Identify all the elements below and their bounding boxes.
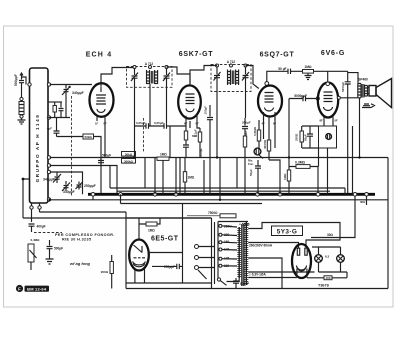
- svg-text:200Ω: 200Ω: [101, 270, 109, 274]
- svg-text:0,4MΩ: 0,4MΩ: [31, 238, 41, 242]
- svg-text:7500Ω: 7500Ω: [208, 211, 218, 215]
- svg-text:8F: 8F: [320, 119, 324, 123]
- svg-text:260/260V 60mA: 260/260V 60mA: [249, 244, 273, 248]
- svg-text:1MΩ: 1MΩ: [188, 176, 195, 180]
- svg-text:500µµF: 500µµF: [14, 74, 18, 86]
- wire drop x163: [162, 160, 164, 194]
- resistor 100 box: [324, 272, 347, 280]
- resistor 30 ohm (hum): [312, 233, 347, 272]
- bottom chassis line: [126, 288, 388, 290]
- trimmer 250uuF: [76, 182, 96, 190]
- 6SK7 cathode network: [135, 121, 202, 194]
- main chassis bus: [88, 193, 375, 196]
- resistor 250k: [243, 131, 248, 195]
- tuning gang dashed link: [71, 96, 73, 196]
- wire T1 coil bottom: [149, 84, 151, 126]
- wire T2 coil bottom: [245, 88, 247, 118]
- coupling capacitor 50uuF: [267, 67, 302, 81]
- wire 1M resistor leads: [184, 158, 186, 195]
- 6E5 section box top: [126, 217, 212, 219]
- capacitor 4uF: [47, 127, 83, 137]
- svg-text:GRUPPO AP H 1149: GRUPPO AP H 1149: [35, 114, 40, 183]
- pilot lamp 1: [315, 247, 323, 272]
- transformer primary bottom lead: [218, 222, 248, 282]
- wire 6SK7 cathode drop: [189, 121, 191, 128]
- svg-text:340µµF: 340µµF: [43, 178, 55, 182]
- voice coil arrow: [362, 104, 375, 108]
- 6E5 section box left: [125, 212, 127, 289]
- wire to 6V6 grid with capacitor 5000uuF: [289, 94, 319, 158]
- wire antenna to tuner box: [22, 77, 27, 85]
- wire right side vertical: [387, 158, 389, 289]
- svg-text:500µF: 500µF: [54, 246, 63, 250]
- bus junction 4: [256, 193, 260, 197]
- tube 6E5: [129, 218, 149, 283]
- svg-text:50kΩ: 50kΩ: [85, 135, 93, 139]
- svg-text:340µµF: 340µµF: [63, 190, 75, 194]
- secondary HV wires: [248, 223, 340, 289]
- antenna coil: [19, 86, 24, 120]
- bus junction 7: [365, 193, 369, 197]
- phono terminals: [195, 245, 215, 280]
- wire 6SQ7 drops: [264, 118, 281, 195]
- svg-text:Fon.: Fon.: [248, 162, 254, 166]
- mid variable capacitor 340uuF (osc 2): [62, 181, 75, 194]
- antenna capacitor 500uuF: [14, 73, 24, 86]
- resistor 0.3M (right): [289, 161, 318, 195]
- bus junction 5: [316, 193, 320, 197]
- wire RF tuning drop: [65, 96, 67, 118]
- IF transformer T1: [127, 62, 173, 124]
- resistor 0.5M: [253, 120, 261, 148]
- capacitor 50uF: [249, 160, 261, 194]
- resistor 1M grid leak: [303, 65, 348, 73]
- wire drop x145: [144, 158, 146, 189]
- bus junction 2b: [153, 193, 157, 197]
- T1 secondary trimmer cap: [163, 68, 170, 87]
- svg-text:RIE 30 H.3235: RIE 30 H.3235: [62, 237, 91, 241]
- wire mid bus upper: [110, 187, 345, 189]
- svg-text:BM 12-64: BM 12-64: [27, 287, 47, 292]
- ground (phono): [46, 256, 54, 264]
- wire left drop: [23, 179, 212, 218]
- wire drop x220: [219, 158, 221, 200]
- phono dashed link: [34, 232, 62, 234]
- svg-text:5F: 5F: [335, 119, 339, 123]
- pilot lamp 2: [337, 247, 345, 272]
- oscillator padder network: [48, 101, 62, 103]
- label box 5Y3-G: [272, 226, 303, 236]
- capacitor 200uF: [242, 118, 251, 136]
- wire ECH4 cathode network: [48, 118, 70, 132]
- svg-text:A 712: A 712: [227, 60, 236, 64]
- resistor 50k: [83, 134, 101, 194]
- bus junction 2: [119, 193, 123, 197]
- svg-text:250µµF: 250µµF: [84, 184, 96, 188]
- wire drop x180: [179, 158, 181, 195]
- svg-text:6SK7-GT: 6SK7-GT: [179, 51, 213, 58]
- 6V6 cathode network: [295, 117, 337, 195]
- T2 secondary trimmer cap: [242, 67, 249, 88]
- resistor 7500 ohm: [187, 211, 236, 218]
- svg-text:50 µF: 50 µF: [278, 67, 286, 71]
- wire T2 secondary return: [216, 88, 218, 158]
- wire corner x345: [344, 188, 346, 194]
- svg-text:6E5-GT: 6E5-GT: [151, 236, 179, 243]
- svg-text:5200µF: 5200µF: [341, 82, 345, 92]
- secondary heater wires: [248, 272, 314, 278]
- svg-text:ECH 4: ECH 4: [86, 51, 113, 58]
- T1 coils: [147, 70, 150, 84]
- svg-text:1MΩ: 1MΩ: [148, 228, 155, 232]
- volume control jack: [248, 148, 263, 166]
- svg-text:wf ag fong: wf ag fong: [70, 261, 91, 266]
- bus junction 4b: [278, 193, 282, 197]
- svg-text:50µF: 50µF: [303, 134, 307, 141]
- svg-text:30Ω: 30Ω: [327, 233, 334, 237]
- wire near-bus line: [117, 190, 330, 192]
- wire osc line: [50, 172, 83, 194]
- wire 6V6 plate to output transformer: [326, 82, 330, 86]
- speaker: [368, 79, 392, 108]
- T2 coils: [228, 70, 231, 86]
- wire rectifier feed: [311, 196, 355, 238]
- svg-text:0,05µF: 0,05µF: [154, 121, 164, 125]
- tube 5Y3 rectifier: [292, 244, 324, 278]
- svg-text:1MΩ: 1MΩ: [304, 65, 312, 69]
- tuner unit box GRUPPO AP: [30, 68, 49, 203]
- IF transformer T2: [211, 60, 251, 92]
- T2 primary trimmer cap: [214, 67, 221, 88]
- svg-text:30Ω: 30Ω: [360, 200, 366, 204]
- tube 6SQ7: [258, 82, 282, 126]
- svg-text:1MΩ: 1MΩ: [283, 173, 287, 180]
- 6E5 section box right: [182, 204, 184, 284]
- bus junction 6: [353, 193, 357, 197]
- output transformer SP460: [358, 78, 368, 98]
- svg-text:5Y3·G: 5Y3·G: [277, 229, 297, 236]
- svg-text:400µF: 400µF: [37, 224, 46, 228]
- ground (antenna): [18, 120, 26, 124]
- mid variable capacitor 340uuF (osc): [43, 173, 61, 184]
- resistor 1M (AF): [283, 158, 291, 195]
- capacitor 250uuF: [152, 264, 183, 270]
- svg-text:6,3: 6,3: [325, 255, 330, 259]
- svg-text:4000Ω: 4000Ω: [263, 139, 267, 149]
- wire under-bus segment: [121, 194, 263, 203]
- wire hum pot: [366, 196, 368, 205]
- transformer section separators: [212, 218, 215, 289]
- svg-text:250µµF: 250µµF: [164, 265, 175, 269]
- capacitor 500uF (phono): [47, 240, 64, 256]
- resistor 4000 ohm: [263, 121, 271, 160]
- svg-text:SP460: SP460: [358, 78, 368, 82]
- volume potentiometer: [28, 238, 40, 270]
- 6E5 section box bottom: [126, 282, 212, 284]
- junction dots: [288, 156, 290, 158]
- terminals under box: [30, 206, 33, 209]
- bus junction 3: [174, 193, 178, 197]
- svg-text:100µF: 100µF: [204, 106, 208, 115]
- mains switch: [217, 272, 226, 286]
- resistor 1M (vertical mid): [183, 172, 195, 182]
- svg-text:100: 100: [325, 276, 330, 280]
- wire screen line: [50, 166, 117, 195]
- ground (grid leak): [305, 73, 312, 79]
- svg-text:0,3MΩ: 0,3MΩ: [295, 161, 306, 165]
- tube ECH4: [90, 83, 114, 125]
- wire 6SK7 plate to T2: [190, 66, 217, 86]
- svg-text:340µµF: 340µµF: [72, 91, 84, 95]
- resistor 50k (left): [122, 152, 136, 157]
- T1 primary trimmer cap: [131, 68, 138, 87]
- tube 6V6: [318, 83, 338, 123]
- phono capacitor 400uF: [29, 224, 46, 232]
- wire drop x237: [236, 158, 238, 189]
- svg-text:4µF: 4µF: [47, 127, 52, 131]
- wire T2 to 6SQ7: [246, 66, 259, 89]
- svg-text:500µF: 500µF: [102, 154, 111, 158]
- dashed IF adjust link: [143, 118, 145, 152]
- wire speaker return: [352, 126, 354, 194]
- svg-text:F: F: [18, 286, 21, 291]
- wire drop ECH4 pin: [104, 121, 106, 158]
- power transformer core and windings: [237, 222, 248, 286]
- resistor 1M (mid): [157, 153, 169, 161]
- wire phono feed: [40, 211, 127, 213]
- svg-text:0,5MΩ: 0,5MΩ: [253, 126, 257, 136]
- svg-text:1F: 1F: [95, 122, 99, 126]
- wire screen tie: [109, 166, 111, 189]
- badge logo: [16, 285, 49, 292]
- bus junction 1: [91, 193, 95, 197]
- capacitor 900uF: [233, 278, 249, 289]
- svg-text:T3678: T3678: [318, 284, 329, 288]
- svg-text:50µF: 50µF: [249, 169, 253, 176]
- svg-text:≡ 6,3V-1ØA: ≡ 6,3V-1ØA: [249, 273, 266, 277]
- capacitor 5000uF plate bypass: [341, 71, 351, 194]
- terminals on box right: [47, 83, 50, 86]
- wire OPT B+ drop: [359, 98, 361, 158]
- wire T1 to 6SK7 grid: [167, 67, 191, 86]
- terminal on box left: [28, 83, 31, 86]
- tube 6SK7: [178, 85, 201, 125]
- power transformer primary taps: [218, 222, 237, 272]
- capacitor 500uF (screen bypass): [98, 154, 111, 166]
- wire ECH4 plate to IFT1: [101, 68, 133, 87]
- svg-text:1MΩ: 1MΩ: [160, 153, 167, 157]
- wire T1 secondary return: [134, 87, 136, 157]
- wire AVC long line: [50, 157, 388, 159]
- capacitor 2100uuF: [204, 105, 214, 194]
- svg-text:300kΩ: 300kΩ: [124, 159, 134, 163]
- svg-text:50kΩ: 50kΩ: [125, 152, 133, 156]
- svg-text:1000µF: 1000µF: [199, 148, 203, 158]
- resistor 300k (left): [122, 159, 136, 164]
- wire under-bus line: [50, 199, 388, 201]
- variable capacitor 340uuF (RF): [62, 85, 84, 97]
- svg-text:6V6-G: 6V6-G: [321, 50, 345, 57]
- svg-text:0,1µF: 0,1µF: [194, 129, 198, 137]
- svg-text:250Ω: 250Ω: [295, 133, 299, 141]
- resistor 200 ohm: [101, 255, 114, 289]
- svg-text:200µF: 200µF: [242, 121, 251, 125]
- svg-text:0,05µF: 0,05µF: [136, 121, 146, 125]
- wire 6E5 grid: [149, 252, 183, 254]
- wire grid line to ECH4: [50, 84, 92, 86]
- svg-text:6SQ7-GT: 6SQ7-GT: [260, 51, 295, 58]
- svg-text:900µF: 900µF: [240, 282, 249, 286]
- svg-text:A 712: A 712: [145, 62, 154, 66]
